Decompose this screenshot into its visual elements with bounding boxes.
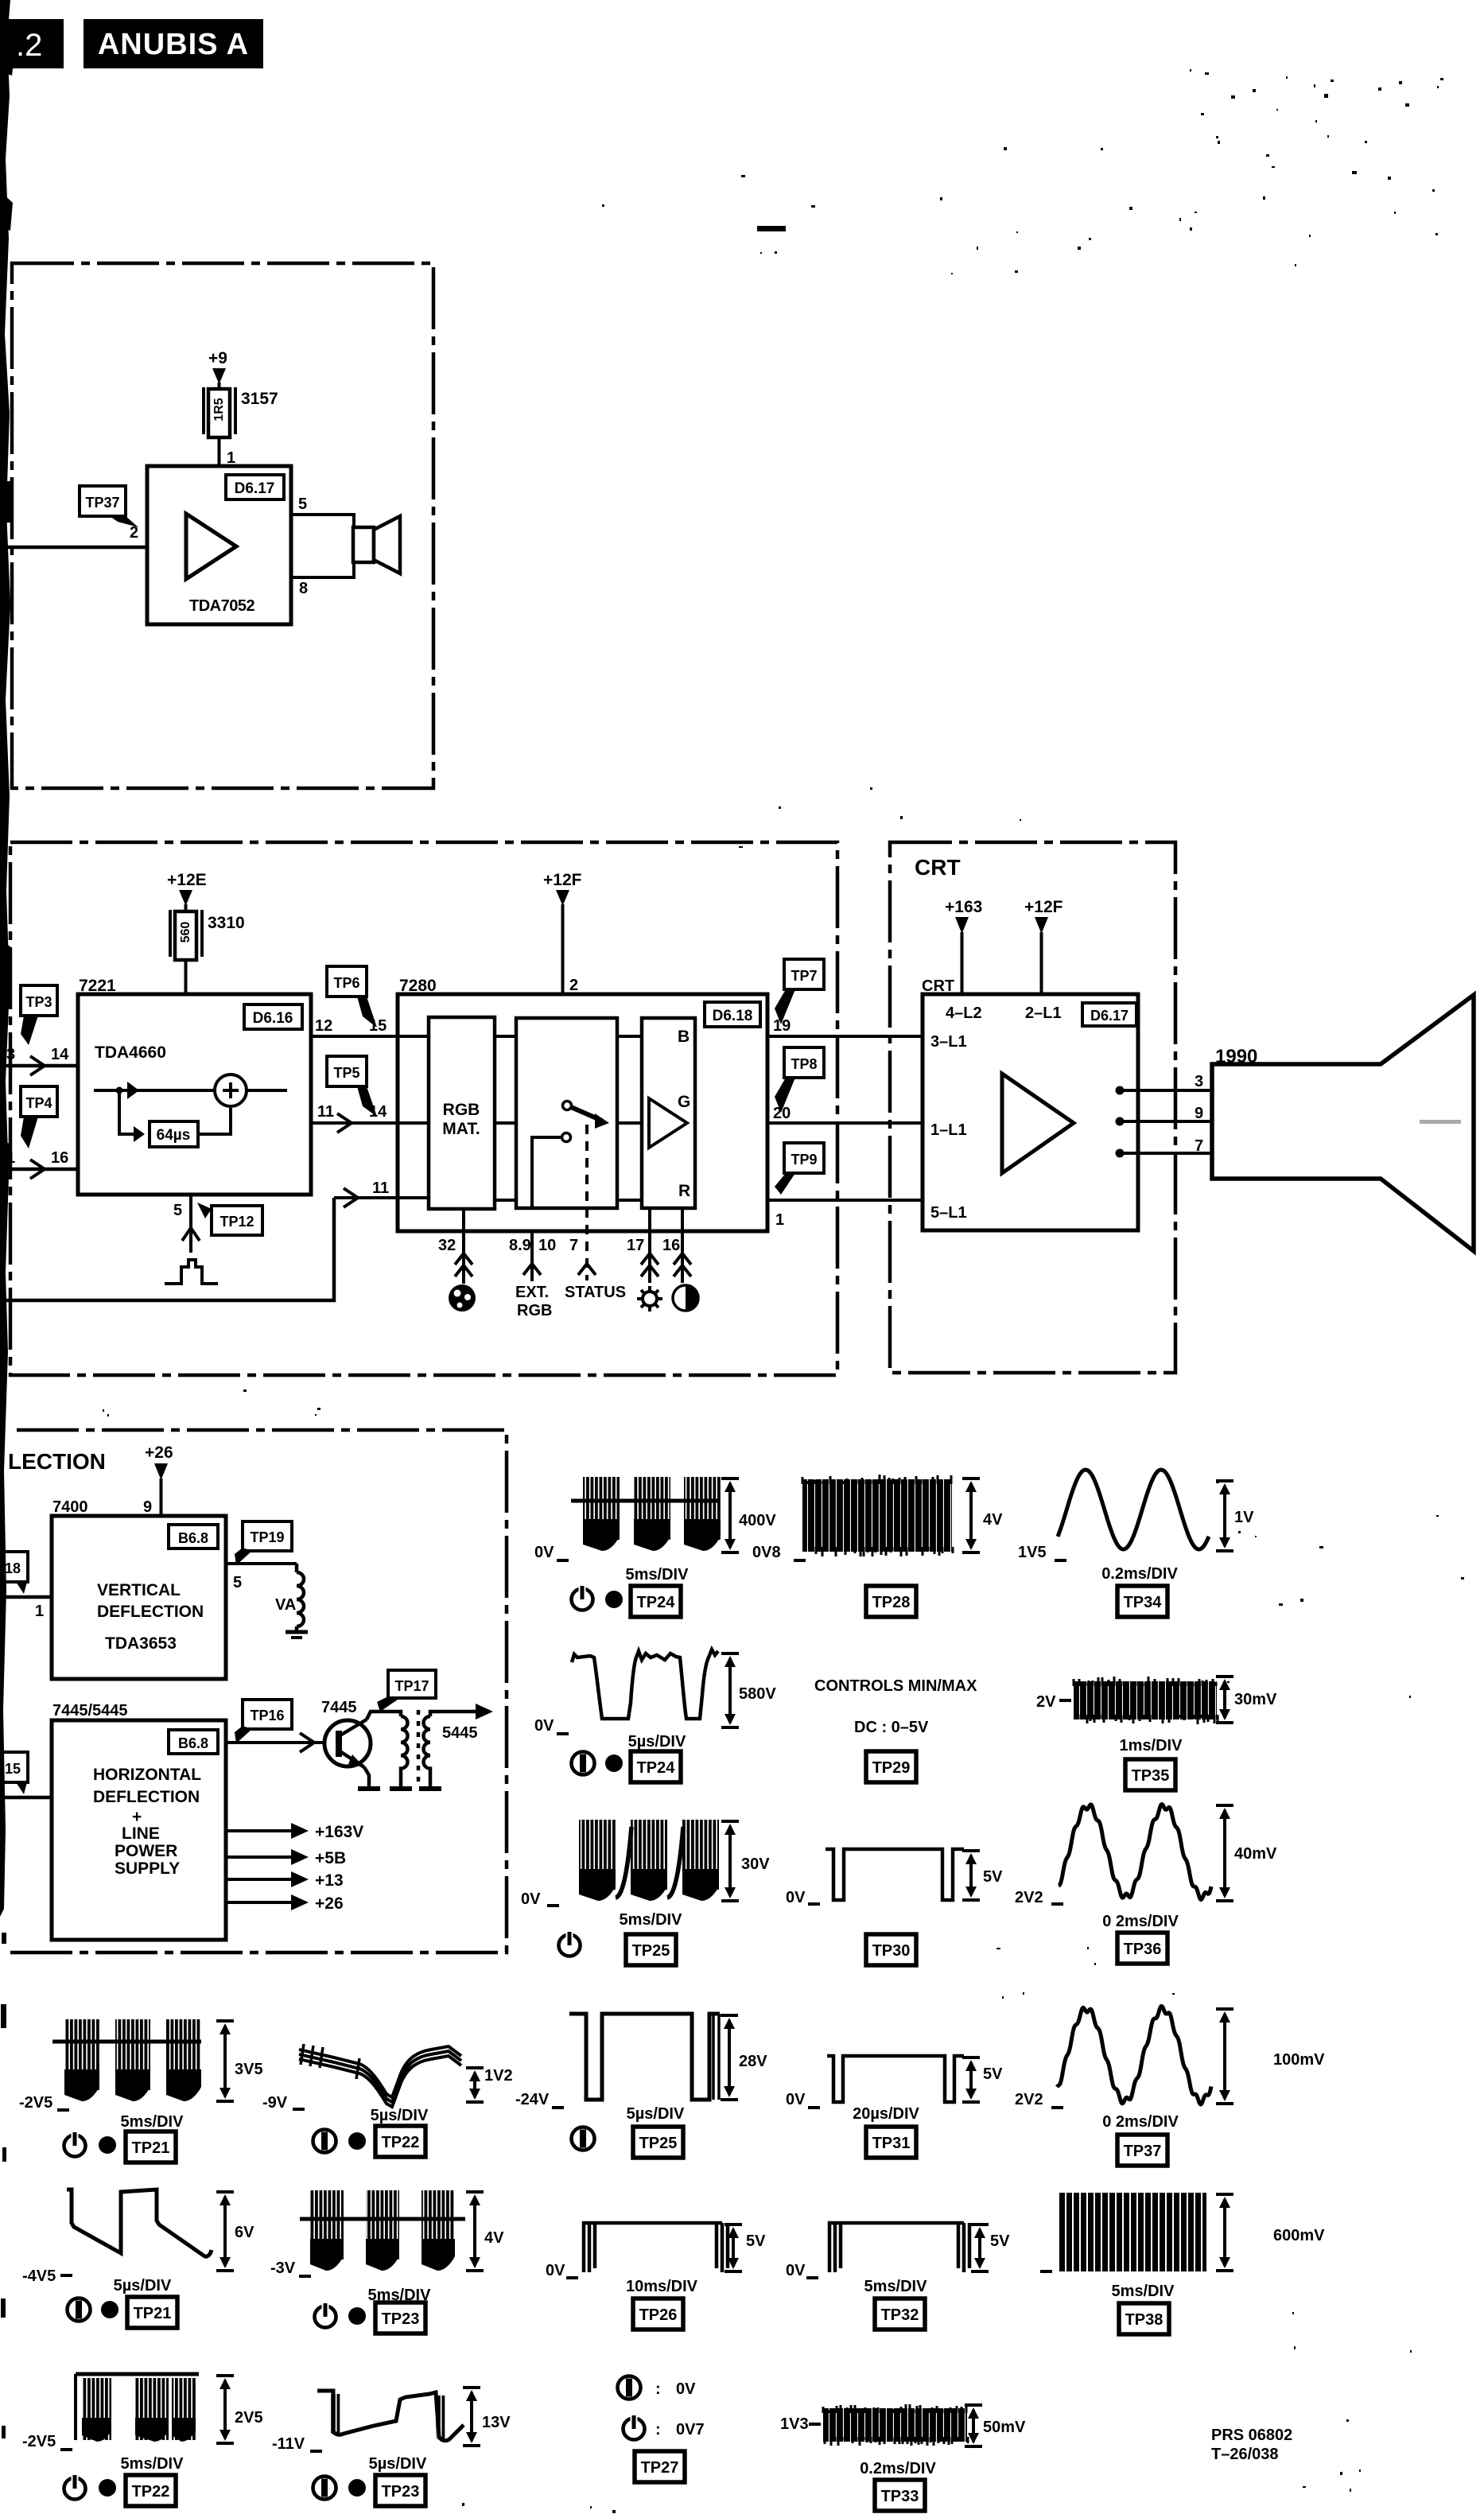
- svg-text:0V: 0V: [521, 1890, 541, 1908]
- scope measure arrow 1V2: [466, 2068, 484, 2102]
- waveform TP33 noise 50mV: [823, 2404, 968, 2446]
- op-amp triangle TDA7052: [186, 514, 236, 579]
- svg-text::: :: [655, 2380, 661, 2398]
- scope baseline label TP25 0V: [521, 1890, 559, 1908]
- svg-text:1V: 1V: [1234, 1509, 1254, 1526]
- vertical deflection block TDA3653: [52, 1516, 226, 1679]
- svg-text:-9V: -9V: [262, 2094, 288, 2112]
- svg-text:+9: +9: [208, 349, 227, 367]
- IC TDA4660 box: [78, 994, 311, 1195]
- scope measure arrow 600mV: [1216, 2194, 1233, 2271]
- svg-text:0V: 0V: [534, 1717, 554, 1735]
- svg-text:TP7: TP7: [791, 968, 817, 984]
- CRT section dash-dot frame: [890, 842, 1175, 1373]
- scope baseline label TP31 0V: [786, 2091, 820, 2108]
- svg-text:0V: 0V: [786, 2262, 806, 2279]
- svg-text:0V7: 0V7: [676, 2421, 705, 2438]
- svg-text:+13: +13: [315, 1871, 344, 1890]
- scope measure arrow 4V: [962, 1479, 980, 1552]
- RGB matrix block: [429, 1017, 495, 1209]
- svg-text:TP36: TP36: [1124, 1941, 1162, 1958]
- test point box TP25: [626, 1934, 676, 1965]
- svg-text:5ms/DIV: 5ms/DIV: [864, 2278, 928, 2295]
- svg-text:CRT: CRT: [915, 855, 961, 880]
- svg-text:TP35: TP35: [1132, 1767, 1170, 1785]
- ground (primary): [390, 1786, 412, 1791]
- resistor 3310 (560): [170, 910, 245, 960]
- waveform TP25 sawtooth 30V: [579, 1820, 719, 1901]
- legend contrast icon: [618, 2376, 641, 2399]
- svg-text:-2V5: -2V5: [22, 2433, 56, 2450]
- svg-text:1: 1: [775, 1211, 784, 1229]
- waveform TP24 line pulse 580V: [572, 1650, 718, 1719]
- scope measure arrow 40mV: [1216, 1805, 1233, 1901]
- contrast icon TP22: [313, 2130, 336, 2153]
- CRT drive box: [923, 994, 1138, 1230]
- svg-text:TP28: TP28: [872, 1594, 911, 1611]
- scope measure arrow 30mV: [1216, 1677, 1233, 1723]
- switch block: [516, 1018, 617, 1208]
- power-on icon TP21: [64, 2131, 86, 2157]
- scope baseline dash TP38: [1040, 2270, 1052, 2273]
- svg-text:TP31: TP31: [872, 2135, 911, 2152]
- pin 1 input wire: [0, 1597, 52, 1620]
- svg-text:1V2: 1V2: [484, 2067, 513, 2085]
- legend power icon: [624, 2415, 645, 2440]
- D6.17 label box: [1082, 1003, 1136, 1026]
- svg-text:5ms/DIV: 5ms/DIV: [121, 2455, 185, 2473]
- svg-text:5µs/DIV: 5µs/DIV: [369, 2455, 427, 2473]
- test point TP18 callout (cut): [0, 1552, 28, 1594]
- svg-text:-2V5: -2V5: [19, 2094, 52, 2112]
- svg-text:1–L1: 1–L1: [930, 1121, 967, 1139]
- svg-text:5µs/DIV: 5µs/DIV: [627, 2105, 685, 2123]
- waveform TP21 3V5 pulses: [52, 2019, 201, 2101]
- svg-text:TDA3653: TDA3653: [105, 1634, 177, 1653]
- svg-text:2: 2: [569, 977, 578, 994]
- svg-text:11: 11: [372, 1179, 389, 1197]
- channel link wires between blocks: [398, 1036, 642, 1200]
- svg-text:16: 16: [662, 1237, 680, 1254]
- status input arrow: [565, 1264, 626, 1301]
- svg-text:20µs/DIV: 20µs/DIV: [853, 2105, 919, 2123]
- svg-text:1: 1: [35, 1603, 44, 1620]
- dot marker TP22b: [99, 2479, 116, 2497]
- D6.16 label box: [244, 1004, 302, 1029]
- test point box TP23: [375, 2475, 425, 2506]
- scope baseline label TP21b -4V5: [22, 2267, 72, 2285]
- waveform TP23 line drive 13V: [317, 2391, 464, 2441]
- svg-text:TP37: TP37: [1124, 2143, 1162, 2160]
- svg-text:64µs: 64µs: [157, 1127, 191, 1144]
- test point box TP24: [631, 1751, 681, 1782]
- deflection coil VA: [275, 1564, 304, 1632]
- test point TP3 callout: [21, 985, 57, 1045]
- svg-text:8.9: 8.9: [509, 1237, 531, 1254]
- test point box TP29: [866, 1751, 916, 1782]
- scan specks top right: [757, 87, 1391, 250]
- svg-text:50mV: 50mV: [983, 2419, 1026, 2436]
- pin 17 wire and brightness icon: [637, 1208, 662, 1311]
- svg-text:7: 7: [1195, 1137, 1203, 1155]
- status dashed line: [585, 1125, 589, 1280]
- power-on icon TP23: [315, 2302, 336, 2328]
- scope baseline label TP34 1V5: [1018, 1544, 1066, 1561]
- svg-text:LECTION: LECTION: [8, 1449, 106, 1474]
- supply output +13: [226, 1871, 344, 1890]
- scope measure arrow 3V5: [216, 2021, 234, 2101]
- dot marker TP24: [605, 1591, 623, 1608]
- scope baseline label TP24b 0V: [534, 1717, 569, 1735]
- svg-text:DEFLECTION: DEFLECTION: [97, 1603, 204, 1621]
- input wire pin 3 to 14: [0, 1046, 78, 1075]
- svg-text:0V: 0V: [786, 2091, 806, 2108]
- scope measure arrow 5V: [962, 2058, 980, 2102]
- test point box TP22: [375, 2126, 425, 2157]
- svg-text:7400: 7400: [52, 1498, 88, 1516]
- test point TP12 callout: [197, 1203, 262, 1235]
- scope measure arrow 30V: [721, 1821, 739, 1901]
- supply output +163V: [226, 1823, 363, 1841]
- page edge scan strip: [0, 0, 14, 2438]
- output pin 20 wire G: [767, 1105, 923, 1123]
- ground (coil VA): [286, 1632, 308, 1638]
- svg-text:2V: 2V: [1036, 1693, 1056, 1711]
- waveform TP37 sine 100mV: [1057, 2007, 1211, 2105]
- svg-text:+12E: +12E: [167, 871, 207, 889]
- test point box TP28: [866, 1586, 916, 1617]
- svg-text:5445: 5445: [442, 1724, 478, 1742]
- test point TP4 callout: [21, 1086, 57, 1148]
- svg-text:2: 2: [130, 524, 138, 542]
- wire pin8 to speaker: [291, 561, 354, 577]
- svg-text:5–L1: 5–L1: [930, 1204, 967, 1222]
- svg-text:+26: +26: [145, 1444, 173, 1462]
- scope baseline label TP22b -2V5: [22, 2433, 72, 2450]
- svg-text:16: 16: [51, 1149, 68, 1167]
- test point TP19 callout: [235, 1521, 292, 1565]
- power-on icon TP25: [559, 1931, 581, 1957]
- test point box TP22: [126, 2475, 176, 2506]
- waveform TP28 4V band: [802, 1475, 953, 1556]
- pin input wire (horizontal defl): [0, 1796, 52, 1800]
- 7280 bottom pin numbers: [438, 1237, 680, 1254]
- secondary output arrow: [430, 1704, 493, 1719]
- svg-text:TP33: TP33: [881, 2488, 919, 2505]
- svg-text:TDA7052: TDA7052: [189, 597, 254, 615]
- D6.18 label box: [705, 1002, 760, 1027]
- dot marker TP23: [348, 2307, 366, 2325]
- svg-text:TP24: TP24: [637, 1594, 676, 1611]
- scope baseline label TP25b -24V: [515, 2091, 564, 2108]
- svg-text:+163V: +163V: [315, 1823, 363, 1841]
- scope baseline label TP33 1V3: [780, 2415, 821, 2433]
- svg-text:-11V: -11V: [272, 2435, 305, 2453]
- svg-text:1R5: 1R5: [212, 398, 226, 421]
- svg-text:14: 14: [51, 1046, 69, 1063]
- test point TP37 callout: [80, 486, 138, 527]
- svg-text:2V5: 2V5: [235, 2409, 263, 2427]
- svg-text:600mV: 600mV: [1273, 2227, 1325, 2244]
- input wire pin 1 to 16: [0, 1149, 78, 1179]
- transformer secondary coil 5445: [424, 1716, 478, 1788]
- svg-text:PRS 06802: PRS 06802: [1211, 2427, 1292, 2444]
- svg-text:0V: 0V: [676, 2380, 696, 2398]
- svg-text:RGB: RGB: [443, 1101, 480, 1119]
- switch contacts: [532, 1102, 609, 1209]
- svg-text:TP4: TP4: [25, 1095, 52, 1111]
- svg-text:0 2ms/DIV: 0 2ms/DIV: [1102, 1913, 1179, 1930]
- svg-text:5V: 5V: [983, 1868, 1003, 1886]
- deflection section dash-dot frame: [8, 1430, 507, 1953]
- pin 16 wire and contrast icon: [673, 1208, 698, 1311]
- svg-text:7445: 7445: [321, 1699, 357, 1716]
- svg-text:18: 18: [5, 1560, 21, 1576]
- scope measure arrow 580V: [721, 1653, 739, 1727]
- svg-text:1V5: 1V5: [1018, 1544, 1047, 1561]
- test point box TP36: [1117, 1933, 1167, 1964]
- wire resistor to pin 1: [218, 437, 221, 468]
- scope measure arrow 1V: [1216, 1481, 1233, 1551]
- scope measure arrow 5V TP26: [725, 2225, 742, 2271]
- svg-text:5µs/DIV: 5µs/DIV: [628, 1733, 686, 1751]
- svg-text:560: 560: [179, 922, 192, 943]
- test point TP8 callout: [775, 1047, 824, 1113]
- svg-text:5µs/DIV: 5µs/DIV: [114, 2277, 172, 2295]
- scope baseline label TP28 0V8: [752, 1544, 806, 1561]
- svg-text:0V8: 0V8: [752, 1544, 781, 1561]
- svg-text:4–L2: 4–L2: [946, 1004, 982, 1022]
- scope baseline label TP32 0V: [786, 2262, 818, 2279]
- svg-text:EXT.: EXT.: [515, 1284, 549, 1301]
- svg-text:TP23: TP23: [382, 2310, 420, 2328]
- horizontal deflection block: [52, 1720, 226, 1940]
- svg-text:+5B: +5B: [315, 1849, 346, 1867]
- waveform TP22 parabola 1V2: [299, 2044, 461, 2107]
- svg-text:3: 3: [6, 1046, 15, 1063]
- contrast icon TP25b: [572, 2127, 595, 2151]
- waveform TP24 400V pulses: [571, 1477, 721, 1551]
- svg-text:2V2: 2V2: [1015, 2091, 1043, 2108]
- transistor Q 7445: [324, 1712, 401, 1786]
- svg-text:.2: .2: [16, 28, 42, 63]
- svg-text:10: 10: [538, 1237, 556, 1254]
- svg-text:MAT.: MAT.: [442, 1120, 480, 1138]
- svg-text:7: 7: [569, 1237, 578, 1254]
- middle section dash-dot frame: [10, 842, 837, 1375]
- svg-text:32: 32: [438, 1237, 456, 1254]
- scope measure arrow 4V: [466, 2192, 484, 2271]
- svg-text:TP17: TP17: [394, 1678, 429, 1694]
- pin 5 wire with sandcastle key input: [173, 1195, 200, 1253]
- sandcastle pulse symbol: [165, 1260, 218, 1284]
- svg-text:13V: 13V: [482, 2414, 511, 2431]
- test point box TP30: [866, 1934, 916, 1965]
- audio input wire to pin 2: [0, 546, 147, 550]
- wire lower pin 11 input: [334, 1179, 398, 1207]
- ground (transistor emitter): [358, 1786, 380, 1791]
- waveform TP31 square 5V: [827, 2056, 964, 2102]
- svg-text:TP25: TP25: [639, 2135, 678, 2152]
- svg-text:5: 5: [233, 1574, 242, 1591]
- waveform TP22 gated burst 2V5: [76, 2374, 199, 2442]
- svg-text:TP25: TP25: [632, 1942, 670, 1960]
- dot marker TP21: [99, 2136, 116, 2154]
- B6.8 label box (vertical): [169, 1525, 218, 1548]
- waveform TP23 4V pulses: [300, 2190, 465, 2271]
- scope measure arrow 50mV: [965, 2405, 982, 2446]
- svg-text:D6.16: D6.16: [253, 1010, 293, 1027]
- svg-text:TP6: TP6: [333, 975, 359, 991]
- test point TP9 callout: [775, 1143, 824, 1195]
- scope measure arrow 13V: [463, 2388, 480, 2446]
- ext rgb input wire: [515, 1231, 552, 1319]
- power-on icon TP22b: [64, 2474, 86, 2500]
- svg-text:TP12: TP12: [219, 1214, 254, 1230]
- waveform TP30 square 5V: [826, 1849, 964, 1900]
- scope baseline label TP22 -9V: [262, 2094, 305, 2112]
- pin 32 wire and colour icon: [449, 1209, 476, 1311]
- wire pin11 to pin14: [311, 1103, 398, 1133]
- scope measure arrow 6V: [216, 2192, 234, 2271]
- test point box TP23: [375, 2302, 425, 2333]
- svg-text:15: 15: [5, 1761, 21, 1777]
- svg-text:G: G: [678, 1093, 690, 1111]
- RGB amplifier block: [642, 1018, 695, 1208]
- test point TP16 callout: [235, 1700, 292, 1743]
- IC 7280 box: [398, 994, 767, 1231]
- output pin 1 wire R: [767, 1200, 923, 1229]
- test point TP15 callout (cut): [0, 1752, 28, 1794]
- supply output +5B: [226, 1849, 346, 1867]
- svg-text:B: B: [678, 1028, 690, 1046]
- svg-text:5: 5: [173, 1202, 182, 1219]
- svg-text:5V: 5V: [983, 2065, 1003, 2083]
- waveform TP35 30mV band: [1074, 1677, 1218, 1724]
- svg-text:TP5: TP5: [333, 1065, 359, 1081]
- +12F supply to pin 2: [543, 871, 582, 994]
- waveform TP32 frame pulse 5V: [829, 2223, 969, 2272]
- ground (secondary): [419, 1786, 441, 1791]
- svg-text:TP23: TP23: [382, 2483, 420, 2501]
- svg-text:7445/5445: 7445/5445: [52, 1702, 128, 1719]
- header page number box .2: [0, 19, 64, 68]
- dot marker TP21b: [101, 2301, 118, 2318]
- svg-text:11: 11: [317, 1103, 334, 1121]
- cathode output dots and wires: [1116, 1086, 1213, 1158]
- scope baseline label TP23b -11V: [272, 2435, 322, 2453]
- svg-text:T–26/038: T–26/038: [1211, 2446, 1279, 2463]
- svg-text:+12F: +12F: [1024, 898, 1063, 916]
- svg-text:TP27: TP27: [641, 2459, 679, 2477]
- svg-text:0V: 0V: [786, 1889, 806, 1906]
- scope baseline label TP24 0V: [534, 1544, 569, 1561]
- long wire from left to lower pin 11: [0, 1198, 334, 1300]
- test point box TP34: [1117, 1586, 1167, 1617]
- power-on icon TP24: [572, 1585, 593, 1611]
- test point box TP35: [1125, 1759, 1175, 1790]
- svg-text:4V: 4V: [983, 1511, 1003, 1529]
- scope baseline label TP36 2V2: [1015, 1889, 1063, 1906]
- +12F supply: [1024, 898, 1063, 994]
- svg-text:4V: 4V: [484, 2229, 504, 2247]
- test point box TP32: [875, 2298, 925, 2330]
- D6.17 label box: [226, 475, 284, 499]
- TDA4660 internal delay line diagram: [94, 1074, 287, 1147]
- svg-text:VERTICAL: VERTICAL: [97, 1581, 181, 1599]
- svg-text:VA: VA: [275, 1596, 296, 1614]
- scope measure arrow 5V TP32: [971, 2225, 989, 2271]
- +12E supply label: [167, 871, 207, 906]
- scope baseline label TP23 -3V: [270, 2260, 311, 2277]
- svg-text:R: R: [678, 1182, 690, 1200]
- svg-text:TP19: TP19: [250, 1529, 284, 1545]
- scope measure arrow 28V: [721, 2015, 738, 2100]
- svg-text:TP21: TP21: [134, 2305, 172, 2322]
- svg-text:3V5: 3V5: [235, 2061, 263, 2078]
- tube internal mark: [1420, 1120, 1461, 1124]
- svg-text:TP3: TP3: [25, 994, 52, 1010]
- svg-text:HORIZONTAL: HORIZONTAL: [93, 1766, 201, 1784]
- header title ANUBIS A: [84, 19, 263, 68]
- scope measure arrow 400V: [721, 1479, 739, 1552]
- svg-text:100mV: 100mV: [1273, 2051, 1325, 2069]
- test point box TP37: [1117, 2135, 1167, 2166]
- test point box TP24: [631, 1586, 681, 1617]
- svg-text:DC : 0–5V: DC : 0–5V: [854, 1719, 929, 1736]
- svg-text:B6.8: B6.8: [178, 1530, 208, 1546]
- supply output +26: [226, 1894, 344, 1913]
- transformer primary coil: [401, 1716, 408, 1788]
- svg-text:5ms/DIV: 5ms/DIV: [1112, 2283, 1175, 2300]
- svg-text:TDA4660: TDA4660: [95, 1043, 166, 1062]
- svg-text:DEFLECTION: DEFLECTION: [93, 1788, 200, 1806]
- svg-text:TP9: TP9: [791, 1152, 817, 1168]
- test point box TP21: [127, 2297, 177, 2328]
- test point box TP21: [126, 2131, 176, 2162]
- svg-text:+: +: [132, 1808, 142, 1826]
- svg-text:6V: 6V: [235, 2224, 254, 2241]
- test point TP17 callout: [377, 1670, 436, 1712]
- svg-text:5: 5: [298, 495, 307, 513]
- svg-text:2V2: 2V2: [1015, 1889, 1043, 1906]
- svg-text:TP16: TP16: [250, 1708, 284, 1723]
- svg-text:1ms/DIV: 1ms/DIV: [1120, 1737, 1183, 1754]
- svg-text:2–L1: 2–L1: [1025, 1004, 1062, 1022]
- scope measure arrow 5V: [962, 1851, 980, 1900]
- svg-text:TP38: TP38: [1125, 2311, 1164, 2329]
- svg-text:10ms/DIV: 10ms/DIV: [626, 2278, 698, 2295]
- IC TDA7052 box: [147, 466, 291, 624]
- test point TP5 callout: [327, 1056, 377, 1117]
- svg-text:TP29: TP29: [872, 1759, 911, 1777]
- svg-text:D6.17: D6.17: [1090, 1008, 1129, 1024]
- svg-text:TP34: TP34: [1124, 1594, 1163, 1611]
- test point TP7 callout: [775, 959, 824, 1024]
- wire +9 to resistor 3157: [218, 383, 221, 390]
- resistor 3157 (1R5): [204, 387, 278, 437]
- svg-text:3310: 3310: [208, 914, 245, 932]
- svg-text:30V: 30V: [741, 1855, 770, 1873]
- B6.8 label box (horizontal): [169, 1730, 218, 1754]
- CRT amplifier triangle: [1002, 1074, 1074, 1173]
- svg-text:400V: 400V: [739, 1512, 776, 1529]
- svg-text:0V: 0V: [546, 2262, 565, 2279]
- svg-text:TP22: TP22: [132, 2483, 170, 2501]
- svg-text:+12F: +12F: [543, 871, 582, 889]
- svg-text:5ms/DIV: 5ms/DIV: [121, 2113, 185, 2131]
- svg-text:TP30: TP30: [872, 1942, 911, 1960]
